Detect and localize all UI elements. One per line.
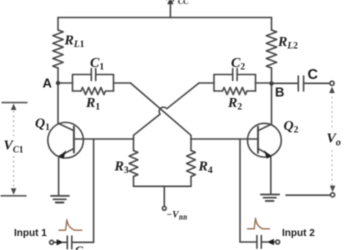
svg-text:+VCC: +VCC [163, 0, 189, 6]
svg-text:C: C [75, 243, 84, 250]
svg-text:R2: R2 [227, 96, 242, 113]
svg-text:Q2: Q2 [284, 119, 299, 136]
svg-text:A: A [43, 76, 53, 91]
svg-text:RL2: RL2 [277, 35, 298, 52]
svg-text:Input 1: Input 1 [14, 228, 47, 239]
svg-text:C1: C1 [90, 56, 104, 73]
svg-text:Input 2: Input 2 [282, 228, 315, 239]
svg-text:−VBB: −VBB [167, 211, 188, 222]
svg-text:Q1: Q1 [35, 117, 50, 134]
svg-text:C2: C2 [231, 56, 245, 73]
svg-text:C: C [308, 67, 319, 83]
svg-text:B: B [275, 85, 284, 100]
svg-text:R1: R1 [85, 96, 100, 113]
svg-text:R3: R3 [114, 160, 129, 177]
svg-text:R4: R4 [198, 160, 213, 177]
svg-text:RL1: RL1 [64, 34, 85, 51]
